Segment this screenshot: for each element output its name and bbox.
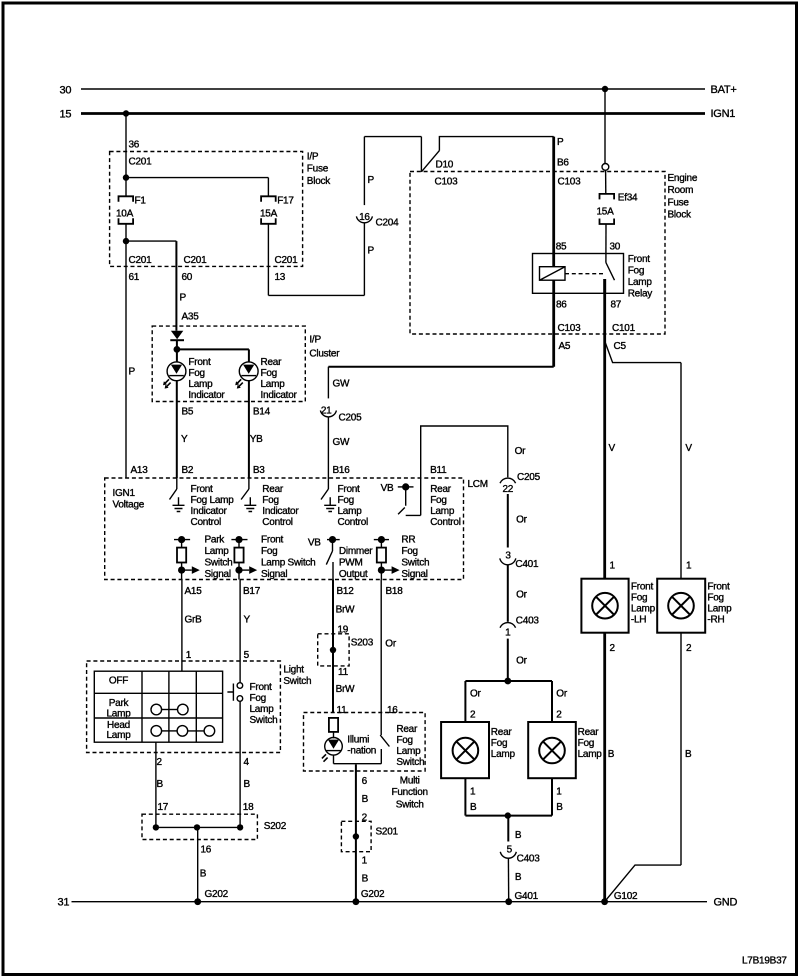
svg-text:B: B	[362, 874, 369, 885]
svg-text:13: 13	[275, 272, 286, 283]
splice S202 box	[142, 814, 257, 839]
svg-text:B16: B16	[333, 465, 351, 476]
svg-text:6: 6	[362, 776, 368, 787]
svg-text:Rear: Rear	[262, 484, 284, 495]
svg-text:BrW: BrW	[336, 684, 356, 695]
svg-text:Lamp: Lamp	[578, 749, 603, 760]
svg-text:C401: C401	[515, 559, 539, 570]
svg-text:Control: Control	[191, 517, 222, 528]
B3 switch blade to ground	[248, 478, 250, 489]
light switch table	[94, 671, 222, 742]
svg-text:BAT+: BAT+	[711, 84, 737, 96]
svg-text:11: 11	[338, 667, 349, 678]
svg-text:Rear: Rear	[430, 484, 452, 495]
svg-text:2: 2	[610, 643, 616, 654]
svg-text:Lamp: Lamp	[188, 379, 213, 390]
svg-text:C205: C205	[517, 472, 541, 483]
svg-text:86: 86	[556, 300, 567, 311]
splice S203 box	[318, 634, 349, 666]
C5 split diagonal	[605, 341, 681, 363]
svg-text:61: 61	[129, 272, 140, 283]
wire C401 to C403	[507, 565, 509, 622]
wire Ef34 to relay pin 30	[605, 224, 607, 263]
svg-text:S202: S202	[264, 821, 287, 832]
svg-text:85: 85	[556, 242, 567, 253]
svg-text:Switch: Switch	[283, 676, 311, 687]
svg-text:S201: S201	[376, 827, 399, 838]
svg-text:A35: A35	[182, 312, 200, 323]
LCM row2 RR fog switch signal	[374, 539, 389, 541]
svg-text:Or: Or	[516, 515, 528, 526]
head lamp contacts	[151, 726, 215, 737]
wire F17 down	[267, 224, 269, 296]
svg-text:Y: Y	[181, 434, 188, 445]
svg-text:C5: C5	[614, 341, 627, 352]
svg-text:-RH: -RH	[707, 615, 724, 626]
svg-text:Lamp: Lamp	[707, 604, 732, 615]
svg-text:P: P	[180, 293, 187, 304]
node S201	[353, 833, 359, 839]
svg-text:Signal: Signal	[205, 569, 231, 580]
svg-text:Control: Control	[262, 517, 293, 528]
B11 switch blade	[398, 487, 421, 516]
svg-text:GND: GND	[714, 897, 738, 909]
svg-text:Control: Control	[430, 517, 461, 528]
rear fog lamp left box	[441, 722, 489, 778]
svg-text:P: P	[368, 246, 375, 257]
wire BAT+ down to fuse block circle	[604, 89, 606, 164]
svg-text:B2: B2	[182, 465, 194, 476]
lamp rear fog right	[539, 738, 565, 764]
wire down to F17	[267, 178, 269, 197]
lamp front fog LH	[592, 593, 618, 619]
svg-text:11: 11	[337, 705, 348, 716]
svg-text:Lamp: Lamp	[396, 746, 421, 757]
svg-text:1: 1	[470, 787, 476, 798]
svg-text:Output: Output	[339, 569, 368, 580]
B2 switch blade to ground	[176, 478, 178, 489]
MFS bottom rail	[334, 763, 382, 765]
svg-text:Front: Front	[250, 682, 273, 693]
svg-text:2: 2	[470, 710, 476, 721]
svg-text:1: 1	[556, 787, 562, 798]
svg-text:Lamp: Lamp	[491, 749, 516, 760]
svg-text:Fog: Fog	[401, 546, 417, 557]
svg-text:C101: C101	[612, 323, 636, 334]
wire down to rear LED	[248, 349, 250, 362]
svg-text:C204: C204	[376, 218, 400, 229]
relay coil	[540, 267, 566, 281]
wire B17 to front fog switch pin 5	[239, 580, 241, 683]
svg-text:S203: S203	[351, 638, 374, 649]
bus 30 BAT+ line	[81, 88, 705, 90]
wire D10 up and across to B6 column	[439, 137, 553, 151]
svg-text:LCM: LCM	[468, 479, 488, 490]
svg-text:Switch: Switch	[205, 557, 233, 568]
B11 VB node	[402, 483, 409, 490]
svg-text:Or: Or	[515, 446, 527, 457]
svg-text:Fog: Fog	[261, 368, 277, 379]
ground at B3	[244, 497, 256, 511]
svg-text:C201: C201	[129, 157, 153, 168]
wire S202 to G202	[197, 827, 199, 901]
svg-text:Front: Front	[191, 484, 214, 495]
ground at B16	[324, 497, 336, 511]
wire C204 top across	[364, 136, 421, 138]
wire A15 to light switch pin 1	[181, 580, 183, 672]
LED illumination	[322, 738, 342, 762]
svg-text:B: B	[200, 869, 207, 880]
svg-text:Fog: Fog	[250, 693, 266, 704]
terminal circle at engine fuse block	[602, 164, 609, 171]
svg-text:Front: Front	[707, 582, 730, 593]
wire right branch down	[551, 681, 553, 722]
svg-text:16: 16	[359, 212, 370, 223]
svg-text:Cluster: Cluster	[309, 348, 340, 359]
lamp front fog RH	[668, 593, 694, 619]
connector D10 C103 diagonal	[421, 151, 439, 172]
svg-text:V: V	[609, 443, 616, 454]
bus 31 GND line	[72, 901, 708, 903]
svg-text:C201: C201	[129, 255, 153, 266]
arrow front fog signal	[239, 566, 257, 574]
svg-text:B18: B18	[386, 586, 404, 597]
LED front fog lamp indicator	[163, 362, 186, 389]
svg-text:B3: B3	[253, 465, 265, 476]
svg-text:P: P	[557, 137, 564, 148]
node fuse feed junction	[123, 174, 129, 180]
wire up to C204	[363, 223, 365, 296]
svg-text:16: 16	[387, 705, 398, 716]
svg-text:BrW: BrW	[336, 605, 356, 616]
svg-text:Front: Front	[628, 254, 651, 265]
svg-text:B6: B6	[557, 158, 569, 169]
svg-text:Indicator: Indicator	[261, 390, 298, 401]
wire B6 feed down to relay coil pin 85	[552, 137, 555, 267]
wire front LED to B2	[176, 381, 178, 478]
svg-text:3: 3	[505, 550, 511, 561]
B16 switch blade to ground	[327, 478, 329, 489]
wire B18 Or down to MFS pin 16	[380, 580, 382, 713]
svg-text:Or: Or	[516, 590, 528, 601]
svg-text:Lamp: Lamp	[261, 379, 286, 390]
svg-text:10A: 10A	[116, 209, 134, 220]
svg-text:Control: Control	[338, 517, 369, 528]
svg-text:G102: G102	[614, 891, 638, 902]
svg-text:60: 60	[182, 272, 193, 283]
arrow RR fog signal	[381, 566, 399, 574]
svg-text:B12: B12	[337, 586, 355, 597]
Multi Function Switch box	[304, 713, 426, 772]
wire 22 to C401	[507, 494, 509, 548]
svg-text:I/P: I/P	[307, 152, 319, 163]
svg-text:GrB: GrB	[185, 615, 203, 626]
wire B11 up and over to C205-22	[421, 426, 508, 515]
front fog lamp LH box	[581, 579, 628, 633]
I/P Cluster box	[152, 326, 305, 401]
svg-text:C205: C205	[339, 413, 363, 424]
svg-text:Dimmer: Dimmer	[339, 546, 373, 557]
svg-text:A13: A13	[131, 465, 149, 476]
node G202 right	[353, 898, 360, 905]
svg-text:21: 21	[321, 405, 332, 416]
svg-text:B11: B11	[430, 465, 447, 476]
svg-text:Front: Front	[631, 582, 654, 593]
svg-text:Rear: Rear	[396, 724, 418, 735]
svg-text:31: 31	[58, 897, 70, 909]
svg-text:YB: YB	[250, 434, 263, 445]
svg-text:2: 2	[157, 757, 163, 768]
relay U1 Front Fog Lamp Relay box	[533, 254, 624, 294]
svg-text:1: 1	[686, 561, 692, 572]
svg-text:Rear: Rear	[261, 357, 283, 368]
node BAT+ junction on bus 30	[602, 86, 608, 92]
svg-text:B: B	[515, 872, 522, 883]
svg-text:GW: GW	[333, 437, 351, 448]
wire relay 86 down (A5)	[552, 280, 555, 367]
svg-text:Block: Block	[668, 210, 692, 221]
svg-text:G202: G202	[361, 889, 385, 900]
svg-text:Park: Park	[205, 534, 226, 545]
wire bus15 down to fuse F1	[125, 114, 127, 197]
svg-text:1: 1	[362, 856, 368, 867]
svg-text:Front: Front	[338, 484, 361, 495]
svg-text:F17: F17	[277, 196, 294, 207]
svg-text:Fuse: Fuse	[668, 197, 690, 208]
lamp rear fog left	[453, 738, 479, 764]
wire rear right down	[551, 778, 553, 815]
svg-text:B: B	[362, 794, 369, 805]
svg-text:Or: Or	[556, 689, 568, 700]
svg-text:IGN1: IGN1	[113, 488, 136, 499]
park lamp contacts	[151, 704, 188, 715]
svg-text:22: 22	[502, 484, 513, 495]
node branch to C201-60	[123, 238, 129, 244]
svg-text:Rear: Rear	[578, 727, 600, 738]
svg-text:P: P	[368, 175, 375, 186]
svg-text:OFF: OFF	[109, 675, 128, 686]
Engine Room Fuse Block box	[410, 172, 665, 335]
svg-text:-LH: -LH	[631, 615, 646, 626]
rear fog switch blade	[380, 713, 389, 764]
svg-text:15: 15	[60, 109, 72, 121]
svg-text:B: B	[515, 830, 522, 841]
svg-text:Ef34: Ef34	[618, 193, 638, 204]
node S202 mid	[194, 824, 200, 830]
svg-text:Fog: Fog	[338, 495, 354, 506]
svg-text:Fog: Fog	[578, 738, 594, 749]
wire diode to junction	[176, 340, 178, 362]
svg-text:36: 36	[129, 140, 140, 151]
svg-text:15A: 15A	[597, 207, 615, 218]
node G102	[601, 898, 608, 905]
fuse F1 10A	[119, 196, 134, 202]
svg-text:B: B	[685, 749, 692, 760]
svg-text:Or: Or	[516, 656, 528, 667]
svg-text:Fog: Fog	[628, 266, 644, 277]
svg-text:Front: Front	[188, 357, 211, 368]
node S202 left	[153, 824, 159, 830]
svg-text:30: 30	[610, 242, 621, 253]
svg-text:VB: VB	[381, 483, 394, 494]
svg-text:-nation: -nation	[347, 745, 376, 756]
LCM row2 front fog lamp switch signal	[231, 539, 247, 541]
svg-text:Light: Light	[283, 665, 304, 676]
wire C403-5 to G401	[507, 858, 509, 902]
svg-text:Relay: Relay	[628, 289, 653, 300]
LCM dimmer PWM output switch	[327, 539, 340, 541]
svg-text:Switch: Switch	[401, 557, 429, 568]
svg-text:1: 1	[505, 628, 511, 639]
svg-text:Fog: Fog	[430, 495, 446, 506]
svg-text:GW: GW	[333, 379, 351, 390]
wire LH to G102	[603, 633, 606, 902]
wire A5 across to GW column	[328, 366, 553, 368]
node S202 right	[237, 824, 243, 830]
svg-text:C201: C201	[275, 255, 299, 266]
svg-text:18: 18	[243, 802, 254, 813]
svg-text:G202: G202	[205, 889, 229, 900]
svg-text:B: B	[244, 779, 251, 790]
connector C205 pin 22	[500, 478, 516, 483]
wire across to rear indicator	[177, 348, 249, 350]
wire C403 to junction	[507, 639, 509, 681]
svg-text:C403: C403	[517, 854, 541, 865]
wire RH feed down	[680, 363, 682, 579]
relay contact blade	[606, 263, 615, 281]
svg-text:Indicator: Indicator	[188, 390, 225, 401]
svg-text:Illumi: Illumi	[347, 734, 369, 745]
wire B12 BrW down to MFS pin 11	[332, 580, 334, 713]
ground at B2	[173, 497, 185, 511]
svg-text:VB: VB	[308, 538, 321, 549]
connector C403 pin 1	[500, 623, 516, 628]
node rear fog ground junction	[505, 812, 511, 818]
svg-text:30: 30	[60, 85, 72, 97]
svg-text:Fog: Fog	[262, 495, 278, 506]
svg-text:F1: F1	[135, 196, 147, 207]
svg-text:B: B	[556, 802, 563, 813]
svg-text:L7B19B37: L7B19B37	[742, 956, 787, 967]
svg-text:C103: C103	[558, 177, 582, 188]
svg-text:Signal: Signal	[261, 569, 287, 580]
rear fog branch top rail	[465, 680, 552, 682]
svg-text:RR: RR	[401, 534, 415, 545]
svg-text:Or: Or	[470, 689, 482, 700]
svg-text:C201: C201	[184, 255, 208, 266]
svg-text:Lamp: Lamp	[106, 708, 131, 719]
wire circle to fuse Ef34	[605, 170, 607, 194]
svg-text:A5: A5	[559, 341, 571, 352]
svg-text:B14: B14	[253, 407, 271, 418]
svg-text:Fog Lamp: Fog Lamp	[191, 495, 235, 506]
svg-text:Switch: Switch	[396, 757, 424, 768]
svg-text:G401: G401	[515, 891, 539, 902]
svg-text:Lamp: Lamp	[430, 506, 455, 517]
svg-text:Lamp: Lamp	[628, 277, 653, 288]
wire down to D10	[420, 137, 422, 172]
svg-text:Front: Front	[261, 534, 284, 545]
diode D in cluster feed	[171, 331, 183, 340]
svg-text:PWM: PWM	[339, 558, 363, 569]
node G202 left	[194, 898, 201, 905]
wire feed across to F17	[126, 177, 268, 179]
svg-text:Park: Park	[109, 698, 130, 709]
Light Switch box	[87, 661, 281, 753]
svg-text:15A: 15A	[260, 209, 278, 220]
svg-text:D10: D10	[436, 160, 454, 171]
wire MFS pin6 down to S201	[355, 765, 357, 902]
wire RH down	[680, 633, 682, 865]
I/P Fuse Block box	[110, 152, 303, 267]
wire C201-60 down to diode A35	[175, 241, 177, 331]
wire relay 87 down to C5 split	[603, 279, 606, 579]
wire branch right	[126, 240, 176, 242]
svg-text:Fog: Fog	[707, 593, 723, 604]
svg-text:Fog: Fog	[631, 593, 647, 604]
svg-text:V: V	[685, 443, 692, 454]
svg-text:C403: C403	[516, 616, 540, 627]
svg-text:1: 1	[186, 650, 192, 661]
wire C205 to B16	[327, 417, 329, 478]
svg-text:2: 2	[556, 710, 562, 721]
svg-text:Voltage: Voltage	[113, 500, 145, 511]
wire junction to C403-5	[507, 816, 509, 842]
svg-text:Y: Y	[244, 615, 251, 626]
svg-text:4: 4	[244, 757, 250, 768]
svg-text:5: 5	[507, 844, 513, 855]
front fog lamp switch contacts	[227, 683, 242, 702]
connector C204 pin 16	[356, 216, 372, 222]
svg-text:Room: Room	[668, 185, 694, 196]
wire fog switch pin4 down	[239, 701, 241, 827]
svg-text:Signal: Signal	[401, 569, 427, 580]
svg-text:1: 1	[610, 561, 616, 572]
relay pin 87 stub	[603, 279, 606, 293]
wire RH jog to G102	[605, 865, 681, 902]
svg-text:IGN1: IGN1	[711, 108, 736, 120]
svg-text:Rear: Rear	[491, 727, 513, 738]
svg-text:87: 87	[611, 300, 622, 311]
svg-text:Lamp: Lamp	[338, 506, 363, 517]
LED rear fog lamp indicator	[235, 362, 258, 389]
front fog lamp RH box	[657, 579, 705, 633]
svg-text:Switch: Switch	[396, 799, 424, 810]
svg-text:B: B	[608, 749, 615, 760]
wire rear LED to B3	[248, 381, 250, 478]
wire left branch down	[464, 681, 466, 722]
fuse F17 15A	[261, 196, 276, 202]
svg-text:Switch: Switch	[250, 715, 278, 726]
wire GW down to C205-21	[327, 367, 329, 399]
svg-text:Fog: Fog	[396, 735, 412, 746]
svg-text:Lamp Switch: Lamp Switch	[261, 557, 316, 568]
svg-text:Or: Or	[385, 639, 397, 650]
svg-text:Block: Block	[307, 176, 331, 187]
svg-text:Indicator: Indicator	[262, 506, 299, 517]
svg-text:17: 17	[158, 802, 169, 813]
S202 junction bar	[156, 826, 240, 828]
wire light switch pin2 down	[155, 742, 157, 827]
svg-text:Lamp: Lamp	[631, 604, 656, 615]
LCM row2 park lamp switch signal: node and resistor	[174, 539, 190, 541]
wire resistor to LED	[333, 732, 335, 738]
node IGN1 junction at x126	[123, 110, 129, 116]
svg-text:Lamp: Lamp	[106, 730, 131, 741]
svg-text:5: 5	[244, 650, 250, 661]
svg-text:C103: C103	[435, 177, 459, 188]
svg-text:Indicator: Indicator	[191, 506, 228, 517]
